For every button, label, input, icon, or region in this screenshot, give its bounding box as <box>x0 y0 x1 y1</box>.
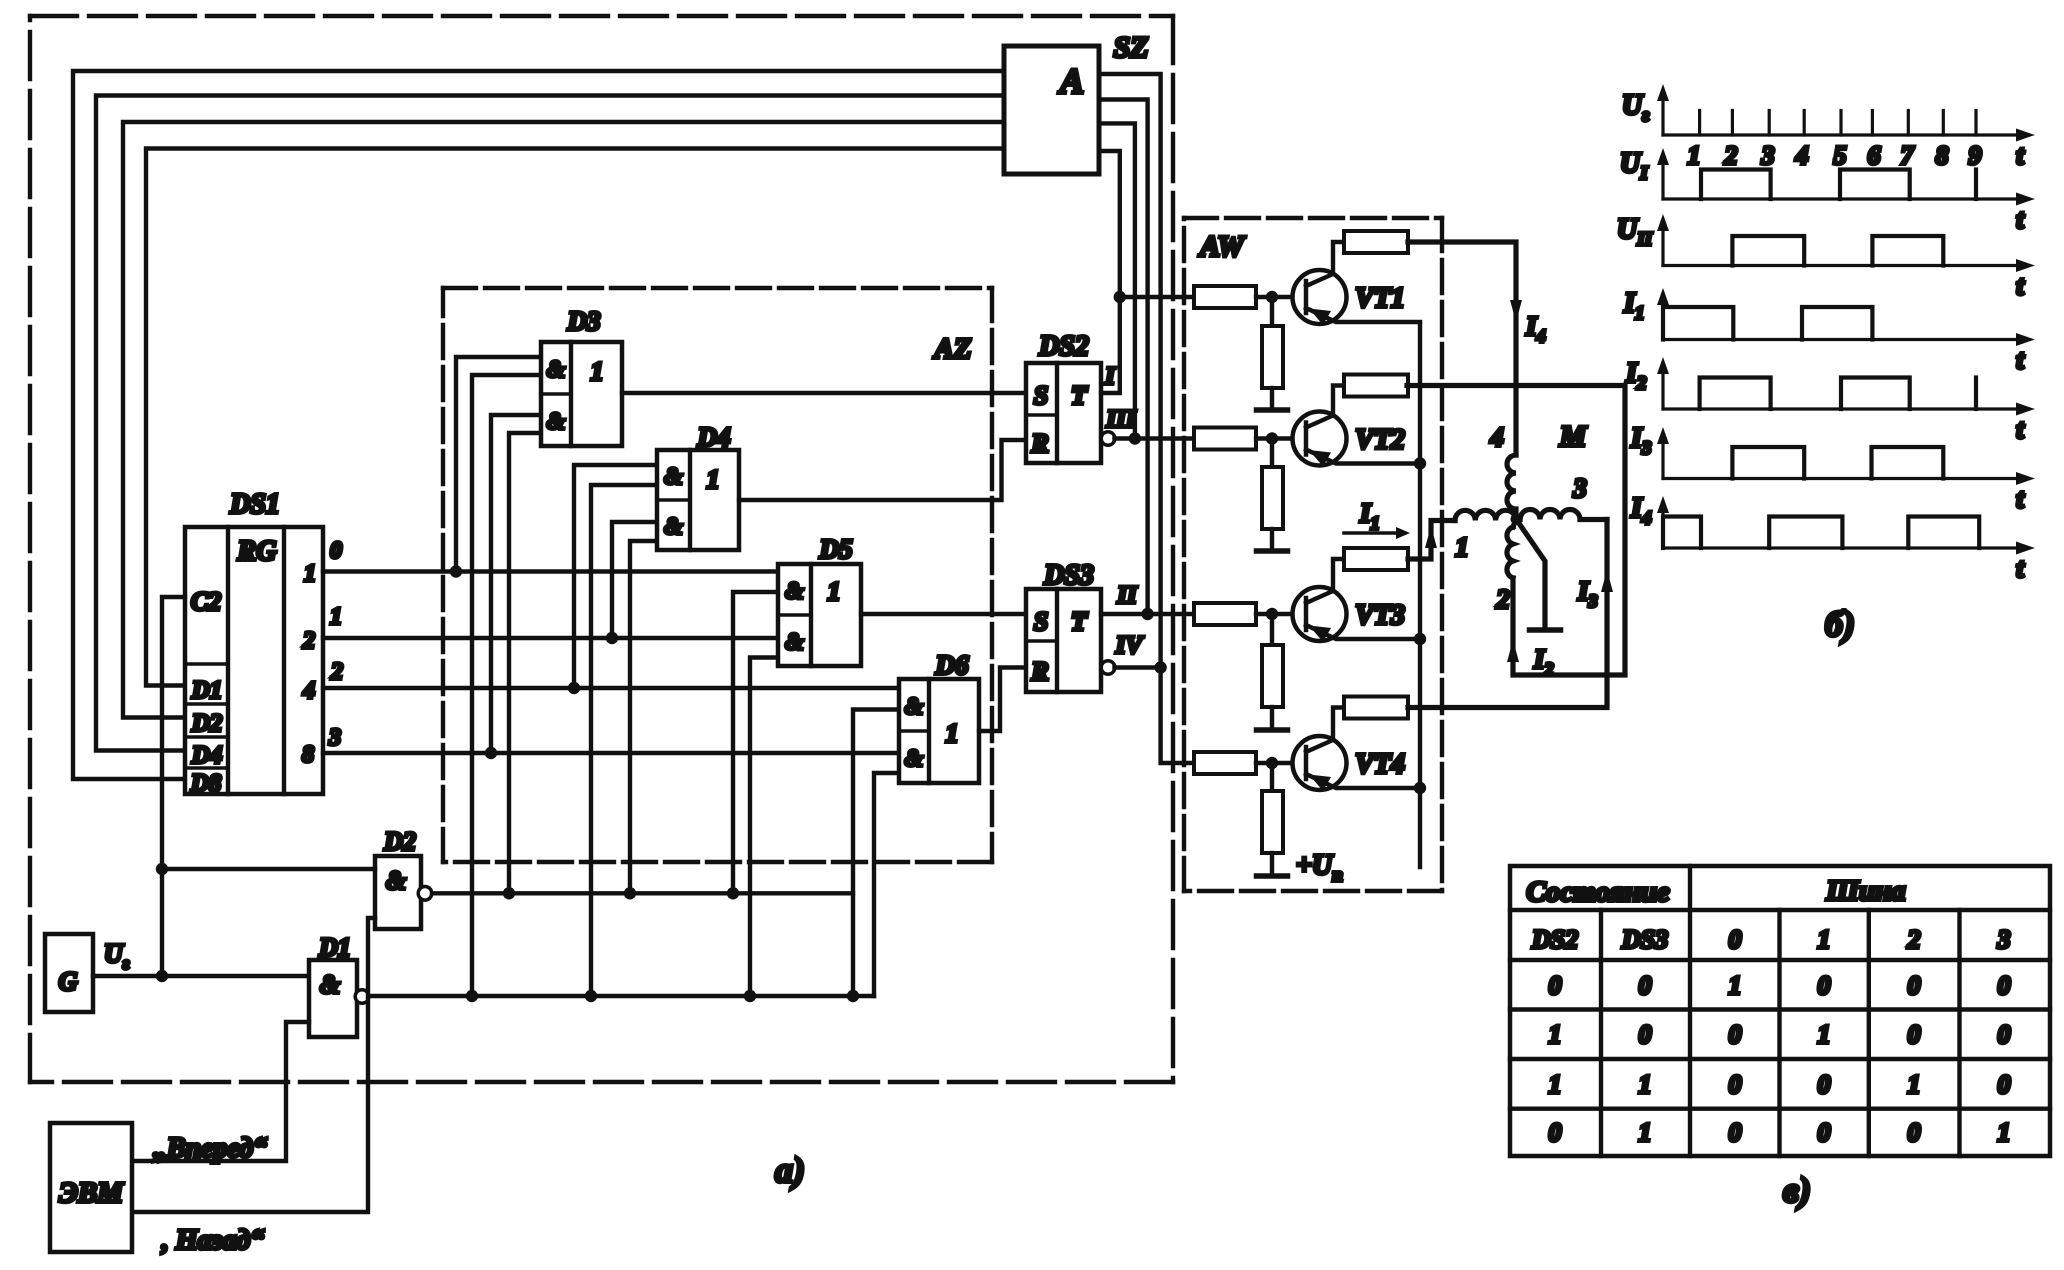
junction emitter VT3 <box>1414 633 1426 645</box>
svg-text:&: & <box>664 514 683 540</box>
svg-text:0: 0 <box>1729 1070 1742 1099</box>
junction D1row/D6 <box>847 990 859 1002</box>
gate D3 <box>541 342 622 446</box>
resistor base RVT4 <box>1194 752 1256 774</box>
junction D2row/D4 <box>624 887 636 899</box>
inductor winding 4 <box>1507 455 1516 519</box>
junction node II <box>1141 608 1153 620</box>
wire D1row/D2row to D6.2 <box>853 710 899 997</box>
wire bus0 row <box>323 569 778 573</box>
inverter bubble D2 <box>418 887 432 901</box>
wire to ground VT3 <box>1270 707 1274 730</box>
flip-flop DS3 <box>1026 589 1101 692</box>
transistor VT1 <box>1293 270 1347 324</box>
svg-text:II: II <box>1116 582 1138 609</box>
svg-text:D3: D3 <box>567 306 601 336</box>
junction C2/D2-input tap <box>156 863 168 875</box>
svg-text:б): б) <box>1825 604 1855 644</box>
svg-text:&: & <box>320 970 340 999</box>
timing axis <box>1663 477 2025 480</box>
resistor base RVT1 <box>1194 286 1256 308</box>
wire bus2 row <box>323 686 899 690</box>
svg-text:M: M <box>1559 420 1588 453</box>
svg-text:в): в) <box>1783 1170 1811 1210</box>
svg-text:1: 1 <box>304 561 316 587</box>
svg-text:DS2: DS2 <box>1038 331 1089 362</box>
svg-text:VT4: VT4 <box>1355 749 1405 780</box>
svg-text:D2: D2 <box>191 710 223 737</box>
svg-text:I: I <box>1104 363 1116 390</box>
svg-text:AW: AW <box>1198 230 1246 263</box>
svg-text:S: S <box>1034 381 1048 410</box>
wire A output 2 (phase II vertical) <box>1099 100 1148 615</box>
svg-text:S: S <box>1034 607 1048 636</box>
ground VT4 <box>1257 873 1288 879</box>
timing axis <box>1663 407 2025 410</box>
timing axis <box>1663 546 2025 549</box>
gate D6 <box>899 679 979 783</box>
svg-text:4: 4 <box>1489 422 1504 452</box>
svg-text:1: 1 <box>591 357 604 386</box>
wire DS2 direct output to node I <box>1101 297 1120 393</box>
wire D2row to D5.2 <box>733 592 778 893</box>
wire emitter bus <box>1418 323 1422 867</box>
svg-text:D8: D8 <box>190 770 222 797</box>
svg-text:1: 1 <box>1818 1020 1831 1049</box>
junction bus1/D4 <box>606 632 618 644</box>
wire base divider VT3 <box>1270 614 1274 645</box>
svg-text:0: 0 <box>1998 1070 2011 1099</box>
inverter bubble DS3 <box>1101 661 1115 675</box>
svg-text:D1: D1 <box>191 677 223 704</box>
waveform pulse <box>1700 378 1771 410</box>
svg-text:&: & <box>664 464 683 490</box>
svg-text:IV: IV <box>1115 632 1145 659</box>
resistor base RVT2 <box>1194 428 1256 450</box>
block boundary AW (dashed) <box>1184 218 1442 891</box>
block boundary SZ (dashed) <box>30 16 1173 1082</box>
wire base VT2 <box>1256 436 1293 440</box>
svg-text:3: 3 <box>1761 141 1775 170</box>
resistor collector RVT4c <box>1344 697 1408 719</box>
resistor collector RVT3c <box>1344 548 1408 570</box>
svg-text:4: 4 <box>1795 141 1809 170</box>
svg-text:T: T <box>1071 381 1088 410</box>
gate D2 <box>375 856 421 929</box>
waveform pulse <box>1840 170 1910 200</box>
wire D2 input UG tap <box>162 867 375 871</box>
svg-text:1: 1 <box>946 719 959 748</box>
junction base VT3 <box>1266 608 1278 620</box>
svg-text:7: 7 <box>1901 141 1915 170</box>
junction emitter VT2 <box>1414 457 1426 469</box>
svg-text:1: 1 <box>330 604 342 630</box>
generator G <box>45 934 93 1012</box>
svg-text:2: 2 <box>1495 584 1510 614</box>
current arrow on winding1 wire <box>1425 526 1437 548</box>
transistor VT3 <box>1293 587 1347 641</box>
wire D4 output to DS2.R <box>739 440 1026 500</box>
wire bus1 row <box>323 636 778 640</box>
wire G output <box>93 974 309 978</box>
wire D2row to D3.4 <box>509 433 541 893</box>
svg-text:1: 1 <box>1729 971 1742 1000</box>
svg-text:а): а) <box>775 1150 805 1190</box>
wire D6 output to DS3.R <box>979 668 1026 732</box>
wire base VT1 <box>1256 295 1293 299</box>
wire DS3 inverted output (node IV) <box>1115 665 1161 669</box>
svg-text:3: 3 <box>328 725 341 751</box>
wire base divider VT4 <box>1270 763 1274 791</box>
wire A output 3 (phase III vertical) <box>1099 123 1135 438</box>
svg-text:2: 2 <box>1724 141 1738 170</box>
junction C2/G output <box>156 970 168 982</box>
svg-text:3: 3 <box>1997 925 2011 954</box>
svg-text:0: 0 <box>1729 925 1742 954</box>
svg-text:&: & <box>785 579 804 605</box>
resistor divider RVT2b <box>1262 467 1283 529</box>
ground motor common <box>1530 627 1561 633</box>
svg-text:9: 9 <box>1969 141 1982 170</box>
svg-text:0: 0 <box>1818 1070 1831 1099</box>
svg-text:8: 8 <box>1936 141 1949 170</box>
register DS1 <box>185 527 323 794</box>
wire bus0 to D3.1 <box>456 357 541 572</box>
wire VT1 collector to winding 4 (I4) <box>1408 242 1516 455</box>
wire VT3 collector to winding 1 (I1) <box>1408 521 1455 560</box>
svg-text:III: III <box>1105 406 1136 433</box>
wire bus1 to D4.3 <box>612 522 657 638</box>
transistor VT4 <box>1293 736 1347 790</box>
svg-text:D4: D4 <box>191 742 223 769</box>
wire feedback A-to-DS1 D1 <box>146 149 1004 686</box>
svg-text:1: 1 <box>1455 532 1469 562</box>
svg-text:4: 4 <box>302 678 315 704</box>
svg-text:5: 5 <box>1834 141 1847 170</box>
svg-text:0: 0 <box>1639 1020 1652 1049</box>
svg-text:1: 1 <box>1688 141 1701 170</box>
svg-text:1: 1 <box>1908 1070 1921 1099</box>
resistor collector RVT1c <box>1344 231 1408 253</box>
svg-text:2: 2 <box>1907 925 1921 954</box>
svg-text:0: 0 <box>1818 971 1831 1000</box>
timing axis <box>1663 264 2025 267</box>
junction base VT4 <box>1266 757 1278 769</box>
wire motor common to ground <box>1516 519 1545 627</box>
svg-text:2: 2 <box>302 628 315 654</box>
svg-text:6: 6 <box>1868 141 1881 170</box>
timing axis <box>1663 133 2025 136</box>
junction D2row/D3 <box>503 887 515 899</box>
computer EVM <box>50 1123 132 1252</box>
junction D1row/D5 <box>744 990 756 1002</box>
wire C2 clock <box>162 597 185 976</box>
wire VT2 collector to winding 2 <box>1407 386 1625 676</box>
junction motor center <box>1511 514 1522 525</box>
waveform pulse <box>1872 447 1944 479</box>
timing axis <box>1663 338 2025 341</box>
timing axis <box>1663 197 2025 200</box>
junction emitter VT4 <box>1414 782 1426 794</box>
svg-text:1: 1 <box>1549 1020 1562 1049</box>
svg-text:2: 2 <box>330 659 343 685</box>
wire DS3 direct output (node II) <box>1101 612 1194 616</box>
svg-text:0: 0 <box>1729 1118 1742 1147</box>
waveform pulse <box>1732 447 1804 479</box>
waveform pulse <box>1872 236 1943 266</box>
svg-text:1: 1 <box>1639 1118 1652 1147</box>
svg-text:DS3: DS3 <box>1621 925 1668 954</box>
svg-text:0: 0 <box>330 538 342 564</box>
wire feedback A-to-DS1 D2 <box>123 122 1004 718</box>
junction node IV <box>1154 661 1166 673</box>
svg-text:1: 1 <box>1818 925 1831 954</box>
junction bus2/D4 <box>568 682 580 694</box>
waveform pulse <box>1841 378 1910 410</box>
commutator block A <box>1004 46 1099 174</box>
svg-text:0: 0 <box>1998 1020 2011 1049</box>
svg-text:1: 1 <box>828 577 841 606</box>
waveform pulse <box>1663 517 1701 549</box>
svg-text:0: 0 <box>1729 1020 1742 1049</box>
svg-text:0: 0 <box>1818 1118 1831 1147</box>
wire feedback A-to-DS1 D4 <box>96 96 1004 751</box>
wire to ground VT2 <box>1270 529 1274 551</box>
wire bus3 to D3.3 <box>491 415 541 753</box>
svg-text:D4: D4 <box>697 422 731 452</box>
wire phase I line <box>1120 295 1194 299</box>
svg-text:A: A <box>1058 61 1084 101</box>
wire to ground VT1 <box>1270 388 1274 410</box>
current arrow I4 <box>1510 300 1522 322</box>
wire D2 input Nazad <box>132 918 375 1212</box>
svg-text:DS1: DS1 <box>229 489 280 520</box>
waveform pulse <box>1908 517 1979 549</box>
svg-text:DS3: DS3 <box>1043 560 1094 591</box>
junction D2row/D5 <box>727 887 739 899</box>
svg-text:Шина: Шина <box>1825 875 1905 907</box>
waveform pulse <box>1769 517 1842 549</box>
svg-text:0: 0 <box>1998 971 2011 1000</box>
wire D5 output to DS3.S <box>861 612 1026 616</box>
svg-text:VT2: VT2 <box>1355 425 1405 456</box>
svg-text:1: 1 <box>1549 1070 1562 1099</box>
svg-text:G: G <box>59 967 78 996</box>
svg-text:D2: D2 <box>383 827 416 856</box>
waveform pulse <box>1701 170 1771 200</box>
wire A output 1 (phase IV vertical) <box>1099 74 1194 763</box>
inductor winding 2 <box>1507 527 1513 578</box>
resistor divider RVT1b <box>1262 326 1283 388</box>
wire to ground VT4 <box>1270 853 1274 876</box>
svg-text:&: & <box>785 630 804 656</box>
svg-text:R: R <box>1030 429 1048 458</box>
svg-text:R: R <box>1030 657 1048 686</box>
svg-text:0: 0 <box>1549 971 1562 1000</box>
wire D1row to D4.2 <box>591 485 657 996</box>
gate D4 <box>657 450 739 550</box>
wire D3 output to DS2.S <box>622 391 1026 395</box>
resistor base RVT3 <box>1194 603 1256 625</box>
svg-text:0: 0 <box>1908 1118 1921 1147</box>
wire VT4 collector to winding 3 (I3) <box>1408 520 1607 708</box>
svg-text:&: & <box>905 746 924 772</box>
svg-text:DS2: DS2 <box>1531 925 1578 954</box>
wire A output 4 (phase I vertical) <box>1099 151 1120 297</box>
svg-text:AZ: AZ <box>932 333 971 365</box>
wire D1row to D5.4 <box>750 658 778 997</box>
wire base VT3 <box>1256 612 1293 616</box>
wire bus2 to D4.1 <box>574 465 657 688</box>
wire base VT4 <box>1256 761 1293 765</box>
ground VT2 <box>1257 548 1288 554</box>
wire D2row to D4.4 <box>630 541 657 893</box>
junction bus0/D3 <box>450 565 462 577</box>
svg-text:SZ: SZ <box>1113 31 1148 64</box>
svg-text:D6: D6 <box>935 650 969 680</box>
clock ticks <box>1698 111 1701 136</box>
flip-flop DS2 <box>1026 363 1101 463</box>
svg-text:VT1: VT1 <box>1355 283 1405 314</box>
junction node III <box>1129 432 1141 444</box>
svg-text:&: & <box>547 357 566 383</box>
svg-text:ЭВМ: ЭВМ <box>59 1177 124 1209</box>
transistor VT2 <box>1293 412 1347 466</box>
resistor collector RVT2c <box>1344 375 1408 397</box>
junction phase I <box>1114 291 1126 303</box>
wire DS2 inverted output (node III) <box>1115 436 1195 440</box>
svg-text:VT3: VT3 <box>1355 600 1405 631</box>
inverter bubble DS2 <box>1101 432 1115 446</box>
junction base VT1 <box>1266 291 1278 303</box>
svg-text:0: 0 <box>1908 1020 1921 1049</box>
table truth table <box>1510 866 2050 1156</box>
wire D1 output row <box>369 994 874 998</box>
svg-text:1: 1 <box>1639 1070 1652 1099</box>
wire D1row to D3.2 <box>472 375 541 996</box>
svg-text:&: & <box>386 866 406 895</box>
svg-text:D5: D5 <box>819 534 853 564</box>
junction D1row/D3 <box>466 990 478 1002</box>
ground VT1 <box>1257 407 1288 413</box>
ground VT3 <box>1257 727 1288 733</box>
wire bus3 row <box>323 751 899 755</box>
wire D1row to D6.4 <box>874 773 899 996</box>
waveform pulse <box>1802 307 1872 340</box>
wire feedback A-to-DS1 D8 <box>73 71 1004 779</box>
svg-text:8: 8 <box>302 742 314 768</box>
svg-text:, Назад“: , Назад“ <box>161 1225 265 1256</box>
waveform pulse <box>1663 307 1733 340</box>
resistor divider RVT4b <box>1262 791 1283 853</box>
block boundary AZ (dashed) <box>443 288 992 862</box>
svg-text:T: T <box>1071 607 1088 636</box>
junction base VT2 <box>1266 432 1278 444</box>
gate D1 <box>309 960 357 1037</box>
current arrow I2 <box>1507 640 1519 662</box>
svg-text:1: 1 <box>1998 1118 2011 1147</box>
junction bus3/D3 <box>485 747 497 759</box>
wire base divider VT2 <box>1270 439 1274 468</box>
svg-text:3: 3 <box>1572 473 1587 503</box>
wire D2 output row <box>432 891 853 895</box>
svg-text:1: 1 <box>707 465 720 494</box>
wire D1 input Vpered <box>132 1022 309 1161</box>
svg-text:„Вперед“: „Вперед“ <box>153 1133 267 1164</box>
svg-text:C2: C2 <box>191 587 221 616</box>
inductor winding 3 <box>1520 510 1607 520</box>
svg-text:&: & <box>547 409 566 435</box>
wire winding2 top to center <box>1513 519 1516 527</box>
svg-text:RG: RG <box>237 536 277 567</box>
svg-text:0: 0 <box>1549 1118 1562 1147</box>
waveform pulse <box>1732 236 1804 266</box>
junction D1row/D4 <box>585 990 597 1002</box>
svg-text:Состояние: Состояние <box>1526 876 1669 908</box>
svg-text:0: 0 <box>1908 971 1921 1000</box>
inverter bubble D1 <box>355 990 369 1004</box>
wire base divider VT1 <box>1270 297 1274 326</box>
gate D5 <box>778 564 861 666</box>
svg-text:D1: D1 <box>318 933 351 962</box>
resistor divider RVT3b <box>1262 645 1283 707</box>
current arrow I3 <box>1601 570 1613 592</box>
svg-text:&: & <box>905 694 924 720</box>
svg-text:0: 0 <box>1639 971 1652 1000</box>
inductor winding 1 <box>1455 510 1516 520</box>
